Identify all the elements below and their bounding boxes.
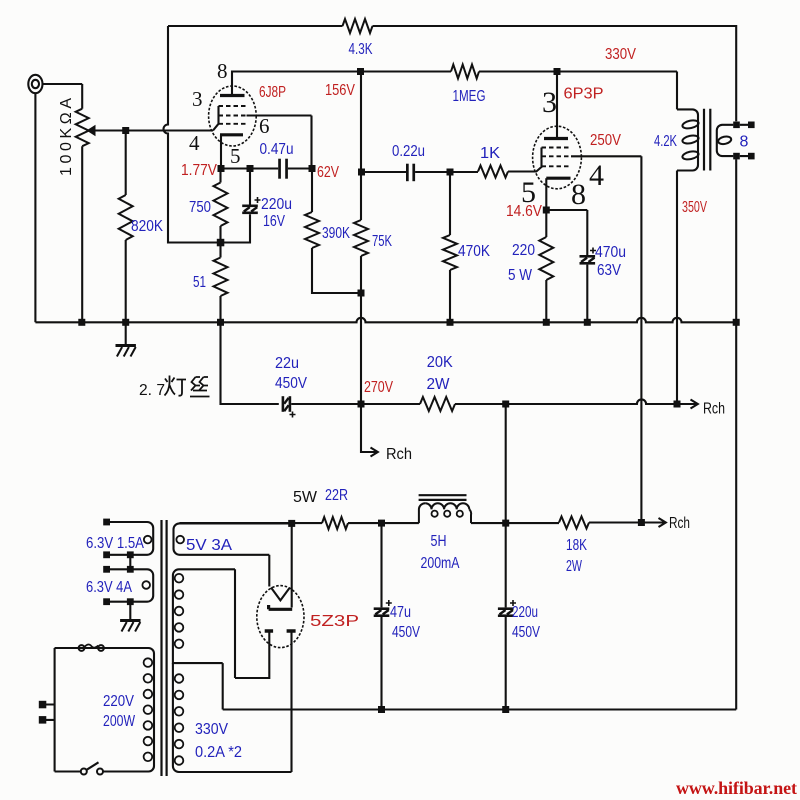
5Z3P cathode/B+ lead [291, 523, 293, 607]
svg-text:8: 8 [217, 59, 228, 83]
node 220-bus [543, 319, 550, 326]
svg-text:20K: 20K [427, 354, 453, 371]
6J8P pin 6 wire to 62V node [247, 116, 312, 169]
fuse [55, 647, 79, 649]
capacitor 22u 450V [282, 396, 285, 412]
svg-text:330V: 330V [195, 721, 228, 738]
svg-text:250V: 250V [590, 132, 621, 149]
resistor 1K [478, 166, 508, 178]
svg-text:1MEG: 1MEG [453, 88, 486, 105]
node 0.22u branch [358, 169, 365, 176]
capacitor 47u 450V [380, 523, 382, 607]
ground symbol (input) [125, 322, 127, 345]
svg-text:5V 3A: 5V 3A [186, 537, 232, 554]
speaker return / right border wire [735, 159, 737, 709]
svg-text:156V: 156V [325, 82, 355, 99]
capacitor 0.47u [278, 159, 281, 179]
PSU ground rail y=709.5 [223, 708, 737, 710]
svg-text:200mA: 200mA [421, 555, 460, 572]
svg-text:350V: 350V [682, 199, 707, 216]
resistor 820K [125, 131, 127, 196]
wire 0.22u branch [362, 171, 407, 173]
node 270V [358, 401, 365, 408]
wire 5V bottom to filament [268, 555, 270, 587]
svg-text:820K: 820K [131, 218, 163, 235]
glyph 灯 [165, 376, 187, 396]
potentiometer 100KΩA [76, 109, 89, 147]
6J8P grids (dashed) [219, 106, 247, 124]
PT core [162, 520, 167, 776]
node cathode [218, 165, 225, 172]
svg-text:750: 750 [189, 199, 211, 216]
6J8P plate bar [220, 94, 245, 97]
svg-text:5: 5 [230, 144, 241, 168]
wire 20K to Rch arrow right (hop at x=641) [455, 399, 677, 404]
svg-text:270V: 270V [364, 379, 393, 396]
svg-text:100KΩA: 100KΩA [58, 98, 75, 176]
svg-text:5 W: 5 W [508, 267, 533, 284]
svg-text:1.77V: 1.77V [181, 162, 217, 179]
svg-text:63V: 63V [597, 262, 621, 279]
resistor 18K 2W [559, 517, 589, 529]
svg-text:3: 3 [542, 86, 557, 119]
svg-text:8: 8 [571, 178, 586, 211]
node 470K/grid [447, 169, 454, 176]
winding 6.3V 1.5A [107, 522, 154, 555]
resistor 750 [219, 169, 221, 183]
svg-text:6J8P: 6J8P [259, 84, 286, 101]
svg-text:450V: 450V [392, 624, 420, 641]
cathode node wire y=168.5 [221, 167, 278, 169]
plate 2 lead to HV bottom [290, 633, 292, 773]
Rch arrow (top right) [677, 400, 698, 409]
OPT primary bottom wire to Rch line [676, 171, 678, 405]
tube 5Z3P envelope U3 [257, 586, 304, 648]
wire 14.6V node to 470u [546, 210, 587, 255]
svg-text:5Z3P: 5Z3P [310, 613, 359, 630]
svg-text:220: 220 [512, 242, 535, 259]
Rch arrow (middle) [361, 404, 370, 452]
svg-text:0.22u: 0.22u [392, 143, 425, 160]
node 470u-bus [584, 319, 591, 326]
capacitor 0.22u [406, 164, 409, 182]
resistor 220 5W [545, 210, 547, 237]
svg-text:200W: 200W [103, 713, 136, 730]
svg-text:Rch: Rch [703, 401, 725, 418]
node 350V/Rch [674, 401, 681, 408]
node 14.6V [543, 207, 550, 214]
HV winding 330V 0.2A*2 [173, 569, 235, 654]
svg-text:16V: 16V [263, 213, 285, 230]
svg-text:2. 7: 2. 7 [139, 382, 165, 399]
svg-text:14.6V: 14.6V [506, 203, 542, 220]
svg-text:Rch: Rch [386, 446, 412, 463]
6P3P plate bar + pin3 lead [544, 137, 568, 140]
capacitor 220u 16V [249, 169, 251, 205]
HV center tap [173, 654, 223, 710]
svg-text:47u: 47u [390, 604, 411, 621]
power switch [55, 770, 149, 772]
svg-text:3: 3 [192, 87, 203, 111]
node 62V [309, 165, 316, 172]
PT primary winding 220V [55, 648, 154, 772]
node: wiper/820K junction [122, 127, 129, 134]
6P3P cathode bar + pin5 lead [546, 177, 570, 180]
resistor 390K [311, 169, 313, 213]
svg-text:2W: 2W [427, 376, 451, 393]
resistor 470K [449, 172, 451, 235]
wire jack to pot [43, 84, 83, 109]
svg-text:4: 4 [589, 159, 604, 192]
svg-text:8: 8 [740, 134, 749, 151]
svg-text:450V: 450V [275, 375, 307, 392]
choke 5H 200mA [419, 503, 425, 523]
Rch arrow (rail) [641, 518, 665, 527]
5Z3P filament V [271, 588, 290, 601]
resistor 22R 5W [322, 517, 348, 529]
PSU B+ rail y=523 [180, 522, 323, 524]
svg-text:6.3V 1.5A: 6.3V 1.5A [86, 535, 144, 552]
node 220u-gnd [502, 706, 509, 713]
tube 6P3P envelope U2 [533, 126, 582, 189]
node 20K/PSU riser [502, 401, 509, 408]
5Z3P plate bars [265, 629, 296, 632]
OPT primary winding 4.2K [677, 109, 698, 170]
node 470K-bus [447, 319, 454, 326]
svg-text:4.2K: 4.2K [654, 133, 677, 150]
svg-text:330V: 330V [605, 46, 636, 63]
5Z3P filament bar [269, 605, 293, 609]
svg-text:470K: 470K [458, 243, 490, 260]
svg-text:6P3P: 6P3P [564, 86, 604, 103]
node 6P3P plate [554, 68, 561, 75]
feedback drop wire x=168 with hop over grid wire [164, 26, 221, 243]
node 220u top [247, 165, 254, 172]
input jack J1 [28, 75, 42, 93]
svg-text:6.3V 4A: 6.3V 4A [86, 579, 132, 596]
svg-text:450V: 450V [512, 624, 540, 641]
node 820K-bus [122, 319, 129, 326]
svg-text:2W: 2W [566, 558, 583, 575]
node cathode network junction [217, 239, 225, 247]
node border-bus [733, 319, 740, 326]
glyph 丝 (underlined) [190, 377, 210, 397]
PSU riser x=505.7 [505, 404, 507, 523]
B+ 270V line (y=404) [221, 322, 279, 404]
plate 1 lead to HV top [235, 569, 269, 678]
svg-text:22R: 22R [325, 487, 348, 504]
svg-text:75K: 75K [372, 233, 392, 250]
svg-text:22u: 22u [275, 355, 299, 372]
svg-text:220u: 220u [512, 604, 538, 621]
svg-text:5H: 5H [431, 533, 447, 550]
6J8P cathode bar [220, 133, 243, 136]
svg-text:220V: 220V [103, 693, 134, 710]
svg-text:51: 51 [193, 274, 206, 291]
capacitor 220u 450V (psu) [505, 523, 507, 607]
winding 5V 3A [174, 523, 292, 554]
feedback wire (top, y=26) [168, 26, 736, 121]
svg-text:4.3K: 4.3K [349, 41, 373, 58]
tube 6J8P envelope U1 [209, 86, 257, 146]
node plate/4.3K [357, 68, 364, 75]
node rectifier out [288, 520, 295, 527]
6J8P pin 8 lead [232, 72, 361, 96]
AC plug prongs [46, 648, 55, 772]
svg-text:Rch: Rch [669, 515, 690, 532]
resistor 1MEG [451, 65, 479, 79]
wire plate node to 1MEG to 6P3P plate [361, 70, 558, 72]
node 390K/75K bottom [358, 290, 365, 297]
pot wiper arrow [94, 129, 213, 131]
svg-text:220u: 220u [261, 196, 292, 213]
svg-text:470u: 470u [595, 244, 626, 261]
svg-text:www.hifibar.net: www.hifibar.net [676, 778, 797, 798]
svg-text:18K: 18K [566, 537, 587, 554]
wire 330V to OPT [557, 72, 677, 110]
node 47u [378, 520, 385, 527]
node 51-bus [217, 319, 224, 326]
svg-text:0.2A *2: 0.2A *2 [195, 744, 242, 761]
OPT secondary winding [717, 125, 734, 156]
svg-text:62V: 62V [317, 164, 339, 181]
svg-text:6: 6 [259, 114, 270, 138]
secondary terminals [733, 122, 740, 129]
ground bus wire (with hops at x=361,641,677) [35, 318, 736, 323]
svg-text:390K: 390K [322, 225, 350, 242]
plate rail x=361: 75K chain [360, 72, 362, 221]
resistor 4.3K (feedback) [343, 19, 373, 33]
wire jack to ground bus [34, 93, 36, 322]
node 18K/g2 [638, 519, 645, 526]
winding 6.3V 4A [107, 569, 154, 601]
svg-text:1K: 1K [480, 145, 500, 162]
resistor 20K 2W [420, 397, 455, 411]
capacitor 470u 63V [580, 255, 596, 258]
OPT core [704, 109, 710, 171]
6P3P pin 4 (g2) wire to PSU rail [571, 156, 641, 522]
filament CT to ground [129, 555, 131, 620]
node choke out/220u [502, 520, 509, 527]
resistor 51 [219, 243, 221, 258]
node 47u-gnd [378, 706, 385, 713]
svg-text:0.47u: 0.47u [260, 141, 294, 158]
svg-text:4: 4 [189, 131, 200, 155]
node pot-bus [78, 319, 85, 326]
6P3P grids (dashed) [542, 148, 572, 167]
6J8P cathode lead pin 5 [220, 135, 222, 169]
svg-text:5W: 5W [293, 489, 318, 506]
